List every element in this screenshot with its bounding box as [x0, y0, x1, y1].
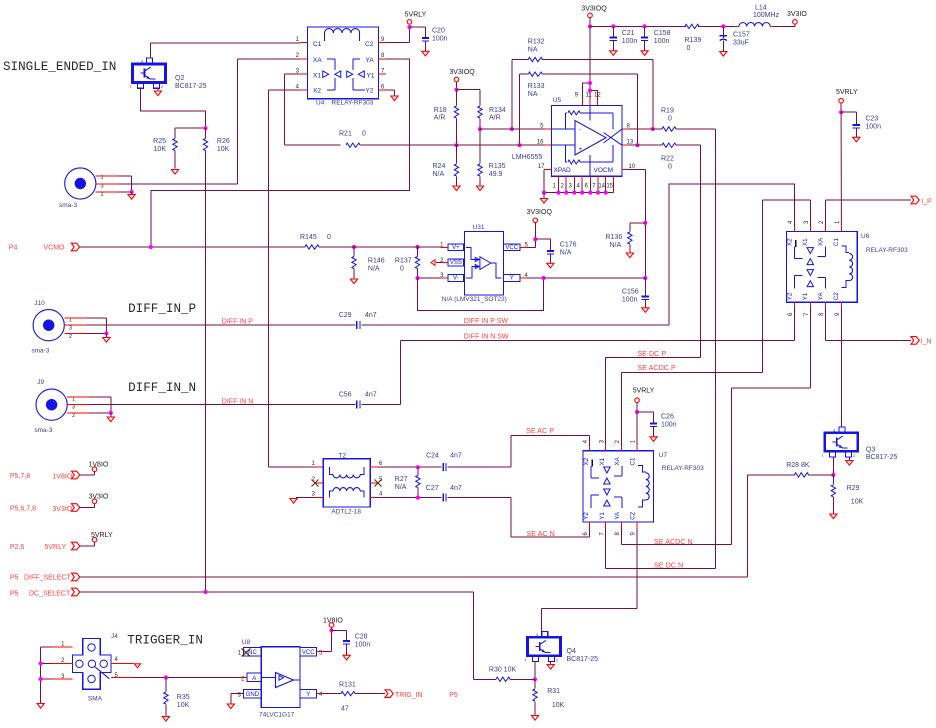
resistor R136: [606, 223, 646, 258]
resistor R27: [395, 467, 420, 497]
svg-text:P5: P5: [449, 692, 458, 699]
svg-text:DIFF_SELECT: DIFF_SELECT: [24, 575, 71, 582]
svg-text:P5: P5: [10, 575, 19, 582]
svg-text:A: A: [252, 676, 256, 682]
svg-text:X2: X2: [313, 88, 321, 95]
wire VCMO: [80, 245, 420, 249]
ground Q3 emitter: [846, 457, 853, 465]
relay U7 box: [583, 451, 704, 522]
svg-text:P5: P5: [10, 591, 19, 598]
svg-text:2: 2: [69, 334, 72, 340]
svg-text:13: 13: [627, 140, 634, 146]
svg-text:U8: U8: [242, 639, 251, 646]
ground R29: [830, 514, 837, 519]
svg-text:49.9: 49.9: [489, 171, 503, 178]
wire I_P line: [825, 199, 911, 201]
resistor R131: [335, 682, 385, 713]
svg-text:5VRLY: 5VRLY: [405, 12, 427, 19]
wire DIFF IN P: [86, 324, 355, 326]
wire J10 pins 1-2: [86, 318, 108, 335]
svg-text:XPAD: XPAD: [554, 167, 572, 174]
ground U8: [227, 704, 234, 709]
U8 pin boxes: [244, 648, 317, 699]
svg-text:3V3IOQ: 3V3IOQ: [581, 5, 607, 12]
buffer U8 box: [242, 639, 300, 719]
svg-text:R22: R22: [661, 156, 674, 163]
svg-text:N/A: N/A: [560, 250, 572, 257]
svg-text:SE ACDC P: SE ACDC P: [637, 363, 676, 372]
svg-text:TRIGGER_IN: TRIGGER_IN: [127, 634, 203, 648]
power 3V3IO out: [775, 11, 808, 26]
title DIFF_IN_P: [128, 302, 196, 316]
svg-text:2: 2: [72, 413, 75, 419]
U4 pin numbers: [296, 37, 385, 90]
svg-text:C1: C1: [630, 457, 637, 465]
resistor R139: [685, 24, 702, 52]
svg-text:C28: C28: [355, 634, 368, 641]
svg-text:X1: X1: [313, 72, 321, 79]
svg-text:17: 17: [538, 164, 545, 170]
svg-text:N/A: N/A: [395, 484, 407, 491]
svg-text:A/R: A/R: [434, 115, 446, 122]
power 3V3IOQ below U5: [527, 209, 553, 223]
U7 pin numbers: [583, 439, 637, 535]
U8 NC no-connect X: [242, 649, 251, 657]
svg-text:47: 47: [341, 706, 349, 713]
resistor R135: [478, 129, 506, 186]
wire sma pin3 to U4 XA: [118, 59, 300, 184]
wire U4 YA to VCMO: [151, 59, 410, 247]
wire DIFF IN P SW: [361, 184, 794, 325]
resistor R134: [478, 90, 506, 131]
svg-text:R29: R29: [847, 485, 860, 492]
wire sma pins 1-2 junction: [118, 176, 134, 194]
svg-text:R26: R26: [217, 138, 230, 145]
svg-text:YA: YA: [614, 511, 621, 520]
ground R35: [162, 717, 169, 722]
svg-text:Y1: Y1: [599, 512, 606, 520]
net label DIFF IN P: [222, 318, 253, 325]
wire Q2 base network: [141, 88, 208, 130]
svg-text:VSS: VSS: [450, 260, 462, 266]
wire R28 to DIFF_SELECT: [747, 475, 749, 577]
U31 internals: [466, 247, 502, 278]
svg-text:0: 0: [668, 116, 672, 123]
svg-text:Y: Y: [306, 692, 310, 698]
svg-text:J9: J9: [37, 379, 44, 386]
svg-text:YA: YA: [817, 292, 824, 301]
svg-text:RELAY-RF303: RELAY-RF303: [662, 465, 704, 472]
wire Q2 collector to U4 C1: [150, 43, 300, 58]
svg-text:RELAY-RF303: RELAY-RF303: [332, 100, 374, 107]
svg-text:BC817-25: BC817-25: [866, 454, 898, 461]
svg-text:DIFF_IN_P: DIFF_IN_P: [128, 302, 196, 316]
ground J9: [107, 413, 114, 422]
net label SE ACDC P: [637, 363, 676, 372]
svg-text:DC_SELECT: DC_SELECT: [29, 591, 71, 598]
svg-text:R24: R24: [433, 163, 446, 170]
svg-text:R21: R21: [339, 131, 352, 138]
svg-text:R136: R136: [606, 234, 623, 241]
svg-text:Q3: Q3: [866, 446, 875, 453]
svg-text:P4: P4: [9, 245, 18, 252]
ground Q4 emitter: [547, 662, 554, 670]
svg-text:X1: X1: [599, 457, 606, 465]
svg-text:BC817-25: BC817-25: [567, 656, 599, 663]
svg-text:11: 11: [586, 93, 593, 99]
svg-text:XA: XA: [313, 57, 322, 64]
svg-text:4n7: 4n7: [450, 453, 462, 460]
title TRIGGER_IN: [111, 633, 203, 648]
wire U6 XA to I_P: [824, 200, 826, 225]
wire DIFF IN N SW: [361, 308, 794, 405]
svg-text:100n: 100n: [654, 38, 670, 45]
svg-text:C2: C2: [365, 41, 374, 48]
port I_P: [911, 196, 919, 204]
svg-text:NA: NA: [528, 91, 538, 98]
power 5VRLY left: [91, 532, 113, 542]
U8 internals: [261, 673, 300, 688]
wire U31 Y out: [528, 276, 646, 280]
wire R22 to SE DC P: [699, 145, 701, 358]
resistor R24: [433, 145, 459, 185]
capacitor C157: [720, 24, 750, 56]
svg-text:R146: R146: [368, 258, 385, 265]
svg-text:5VRLY: 5VRLY: [91, 532, 113, 539]
svg-text:sma-3: sma-3: [31, 348, 49, 355]
svg-text:N/A (LMV321_SOT23): N/A (LMV321_SOT23): [442, 296, 507, 303]
svg-text:Y2: Y2: [787, 292, 794, 300]
svg-text:C21: C21: [622, 30, 635, 37]
transistor Q4: [524, 632, 598, 664]
svg-text:SINGLE_ENDED_IN: SINGLE_ENDED_IN: [3, 60, 116, 74]
svg-text:3: 3: [72, 405, 75, 411]
svg-text:R28 8K: R28 8K: [786, 462, 810, 469]
svg-text:C2: C2: [833, 292, 840, 300]
svg-text:YA: YA: [366, 57, 375, 64]
connector J-sma single ended: [59, 168, 118, 209]
resistor R21: [285, 131, 546, 148]
title SINGLE_ENDED_IN: [3, 60, 116, 74]
ground R25: [171, 170, 178, 175]
svg-text:C157: C157: [733, 32, 750, 39]
capacitor C156: [622, 278, 649, 312]
wire U7 C1: [636, 412, 638, 445]
capacitor C176: [535, 239, 576, 268]
wire DC_SELECT: [80, 590, 474, 679]
ground U4 Y2: [391, 96, 398, 101]
svg-text:10K: 10K: [552, 702, 565, 709]
transformer T2 windings: [330, 467, 364, 498]
U5 pin numbers: [537, 93, 636, 171]
svg-text:100n: 100n: [355, 642, 371, 649]
transistor Q2: [129, 58, 206, 90]
wire SE DC P: [606, 358, 701, 445]
svg-text:10K: 10K: [154, 146, 167, 153]
power 1V8IO: [89, 462, 109, 472]
svg-text:TRIG_IN: TRIG_IN: [395, 692, 423, 699]
capacitor C28: [332, 631, 371, 660]
U5 pin stubs: [544, 99, 629, 169]
U31 pin numbers: [440, 243, 528, 280]
svg-text:C27: C27: [426, 485, 439, 492]
svg-text:10K: 10K: [177, 702, 190, 709]
resistor R22: [629, 143, 701, 171]
relay U6 internals: [787, 237, 853, 300]
wire T2 pin6 C24 row: [377, 465, 441, 469]
svg-text:SE AC N: SE AC N: [527, 529, 555, 538]
svg-text:10K: 10K: [851, 499, 864, 506]
svg-text:3V3IOQ: 3V3IOQ: [449, 69, 475, 76]
svg-text:+: +: [579, 146, 583, 153]
svg-text:T2: T2: [338, 453, 346, 460]
svg-text:J10: J10: [34, 300, 45, 307]
wire 3V3IOQ rail: [590, 25, 739, 27]
svg-text:P2,6: P2,6: [10, 544, 25, 551]
svg-text:VCC: VCC: [302, 650, 315, 656]
op-amp U31 box: [442, 224, 507, 303]
svg-text:R133: R133: [528, 83, 545, 90]
net label DIFF IN P SW: [464, 318, 509, 325]
svg-text:Y1: Y1: [367, 72, 375, 79]
resistor R18: [434, 90, 459, 148]
wire R132 right drop: [651, 60, 655, 132]
svg-text:N/A: N/A: [368, 266, 380, 273]
svg-text:U4: U4: [316, 100, 325, 107]
ground R135: [476, 186, 483, 191]
resistor R137: [395, 247, 420, 280]
port I_N: [911, 337, 931, 346]
wire U5 bottom pin bus: [542, 169, 614, 194]
svg-text:R145: R145: [300, 234, 317, 241]
svg-text:LMH6555: LMH6555: [512, 154, 542, 161]
svg-text:U5: U5: [553, 97, 562, 104]
svg-text:N/A: N/A: [433, 171, 445, 178]
svg-text:V-: V-: [453, 276, 459, 282]
wire U5 pin5 row: [480, 128, 545, 130]
resistor R145: [300, 234, 418, 249]
capacitor C26: [637, 412, 677, 442]
ground R24: [453, 186, 460, 191]
power 3V3IOQ mid: [449, 69, 480, 92]
svg-text:C56: C56: [339, 392, 352, 399]
svg-text:C23: C23: [865, 116, 878, 123]
svg-text:R30 10K: R30 10K: [489, 667, 517, 674]
U7 pin stubs: [590, 445, 638, 528]
svg-text:10K: 10K: [217, 146, 230, 153]
svg-text:5VRLY: 5VRLY: [633, 388, 655, 395]
svg-text:Y2: Y2: [583, 512, 590, 520]
svg-text:2: 2: [101, 192, 104, 198]
wire T2 pin3 ground: [290, 498, 316, 504]
svg-text:14: 14: [598, 184, 605, 190]
svg-text:C1: C1: [313, 41, 322, 48]
svg-text:L14: L14: [755, 5, 767, 12]
port P26 5VRLY: [10, 542, 95, 551]
wire T2 pin4 C27 row: [377, 496, 441, 500]
svg-text:R132: R132: [528, 39, 545, 46]
svg-text:C20: C20: [432, 28, 445, 35]
svg-text:ADTL2-18: ADTL2-18: [331, 509, 361, 516]
wire U4 Y2 ground: [386, 90, 394, 96]
svg-text:R35: R35: [177, 694, 190, 701]
wire DIFF_SELECT: [80, 576, 748, 578]
wire U6 Y1 to SE ACDC N: [732, 308, 811, 544]
svg-text:0: 0: [687, 45, 691, 52]
wire Q4 base: [533, 662, 537, 682]
connector J10: [31, 300, 86, 355]
svg-text:100n: 100n: [622, 297, 638, 304]
svg-text:74LVC1G17: 74LVC1G17: [259, 712, 295, 719]
connector J9: [34, 379, 89, 434]
wire SE ACDC P riser: [762, 200, 810, 372]
svg-text:V+: V+: [452, 245, 460, 251]
relay U7 internals: [583, 456, 649, 519]
svg-text:X1: X1: [802, 238, 809, 246]
capacitor C29: [339, 312, 377, 329]
net label SE DC P: [637, 349, 666, 358]
capacitor C21: [610, 24, 638, 55]
power 3V3IOQ rail: [581, 5, 607, 28]
svg-text:C26: C26: [661, 414, 674, 421]
svg-text:R131: R131: [339, 682, 356, 689]
wire VOCM net: [629, 169, 648, 280]
wire U4 X1 to R21 row: [285, 74, 301, 145]
wire SE AC N: [448, 498, 590, 538]
wire SE AC P: [448, 436, 590, 468]
svg-text:SMA: SMA: [88, 696, 103, 703]
wire 5VRLY to U6 C1: [840, 112, 842, 225]
wire U31 VCC supply: [528, 223, 538, 248]
svg-text:R134: R134: [489, 107, 506, 114]
port P5678 3V3IO: [10, 504, 95, 514]
svg-text:R139: R139: [685, 37, 702, 44]
svg-text:X2: X2: [583, 457, 590, 465]
svg-text:100n: 100n: [661, 422, 677, 429]
svg-text:C24: C24: [426, 453, 439, 460]
svg-text:3V3IO: 3V3IO: [787, 11, 807, 18]
svg-text:3V3IO: 3V3IO: [52, 506, 72, 513]
U31 pin stubs: [440, 247, 527, 278]
power 5VRLY U7: [633, 388, 655, 415]
svg-text:R19: R19: [661, 108, 674, 115]
wire U8 GND: [231, 694, 244, 704]
svg-text:C158: C158: [654, 30, 671, 37]
svg-text:R31: R31: [547, 688, 560, 695]
ground U5 bus: [540, 193, 547, 204]
wire SE ACDC N: [622, 528, 732, 545]
svg-text:J4: J4: [111, 633, 118, 640]
svg-text:Q2: Q2: [175, 75, 184, 82]
U6 pin numbers: [788, 220, 841, 316]
svg-text:C1: C1: [833, 238, 840, 246]
svg-text:NA: NA: [528, 47, 538, 54]
svg-text:X2: X2: [787, 238, 794, 246]
port TRIG_IN: [385, 690, 458, 699]
svg-text:Y: Y: [510, 276, 514, 282]
svg-text:-: -: [579, 127, 581, 134]
T2 pin numbers: [312, 461, 383, 498]
wire U8 VCC: [317, 627, 334, 651]
ground R31: [531, 716, 538, 721]
svg-text:100MHz: 100MHz: [753, 12, 780, 19]
svg-text:VCC: VCC: [505, 245, 518, 251]
T2 no-connect X pin5: [375, 480, 382, 487]
capacitor C20: [410, 27, 448, 56]
svg-text:R27: R27: [395, 476, 408, 483]
port P4 VCMO: [9, 243, 80, 251]
svg-text:0: 0: [327, 234, 331, 241]
svg-text:A/R: A/R: [489, 115, 501, 122]
wire U4 X2 to T2: [269, 90, 316, 467]
resistor R29: [831, 475, 863, 514]
U8 pin numbers: [238, 651, 323, 699]
svg-text:C156: C156: [622, 289, 639, 296]
svg-text:16: 16: [537, 140, 544, 146]
capacitor C56: [339, 392, 377, 409]
svg-text:0: 0: [400, 266, 404, 273]
wire DIFF IN N: [89, 404, 355, 406]
T2 no-connect X pin2: [312, 480, 319, 487]
svg-text:5VRLY: 5VRLY: [836, 89, 858, 96]
svg-text:R18: R18: [434, 107, 447, 114]
J4 pin numbers: [61, 642, 118, 681]
svg-text:P5,7,8: P5,7,8: [10, 473, 30, 480]
svg-text:Y1: Y1: [802, 292, 809, 300]
svg-text:4n7: 4n7: [365, 392, 377, 399]
svg-text:15: 15: [606, 184, 613, 190]
svg-text:U31: U31: [473, 224, 485, 231]
net label SE DC N: [654, 560, 683, 569]
wire U8 Y out: [317, 693, 336, 695]
wire SE DC N: [606, 528, 716, 569]
op-amp U5 box: [512, 97, 622, 176]
wire R26 to DC_SELECT: [205, 151, 207, 593]
svg-text:SE DC P: SE DC P: [637, 349, 666, 358]
svg-text:C176: C176: [560, 242, 577, 249]
net label DIFF IN N SW: [464, 334, 509, 341]
svg-text:U6: U6: [861, 233, 870, 240]
wire U4 C2 to 5VRLY: [386, 27, 409, 43]
ground R146: [350, 279, 357, 284]
svg-text:R25: R25: [153, 138, 166, 145]
power 5VRLY right: [836, 89, 858, 114]
power 3V3IO left: [89, 494, 109, 504]
relay U4 box: [307, 27, 378, 107]
svg-text:4n7: 4n7: [365, 312, 377, 319]
svg-text:U7: U7: [659, 452, 668, 459]
svg-text:SE AC P: SE AC P: [526, 426, 554, 435]
ground sma: [128, 192, 135, 199]
svg-text:N/A: N/A: [610, 242, 622, 249]
svg-text:1V8IO: 1V8IO: [52, 474, 72, 481]
T2 pin stubs: [316, 467, 377, 498]
wire SE ACDC P: [622, 372, 763, 445]
svg-text:R135: R135: [489, 163, 506, 170]
svg-text:XA: XA: [614, 456, 621, 465]
capacitor C23: [841, 112, 881, 142]
svg-text:DIFF IN N SW: DIFF IN N SW: [464, 334, 509, 341]
U31 pin boxes: [448, 244, 520, 282]
svg-text:C2: C2: [630, 511, 637, 519]
svg-text:C29: C29: [339, 312, 352, 319]
svg-text:XA: XA: [817, 237, 824, 246]
transformer T2 box: [323, 453, 370, 516]
U4 pin stubs: [300, 43, 386, 90]
power 1V8IO U8: [323, 617, 343, 627]
svg-text:100n: 100n: [622, 38, 638, 45]
U6 pin stubs: [795, 225, 842, 308]
